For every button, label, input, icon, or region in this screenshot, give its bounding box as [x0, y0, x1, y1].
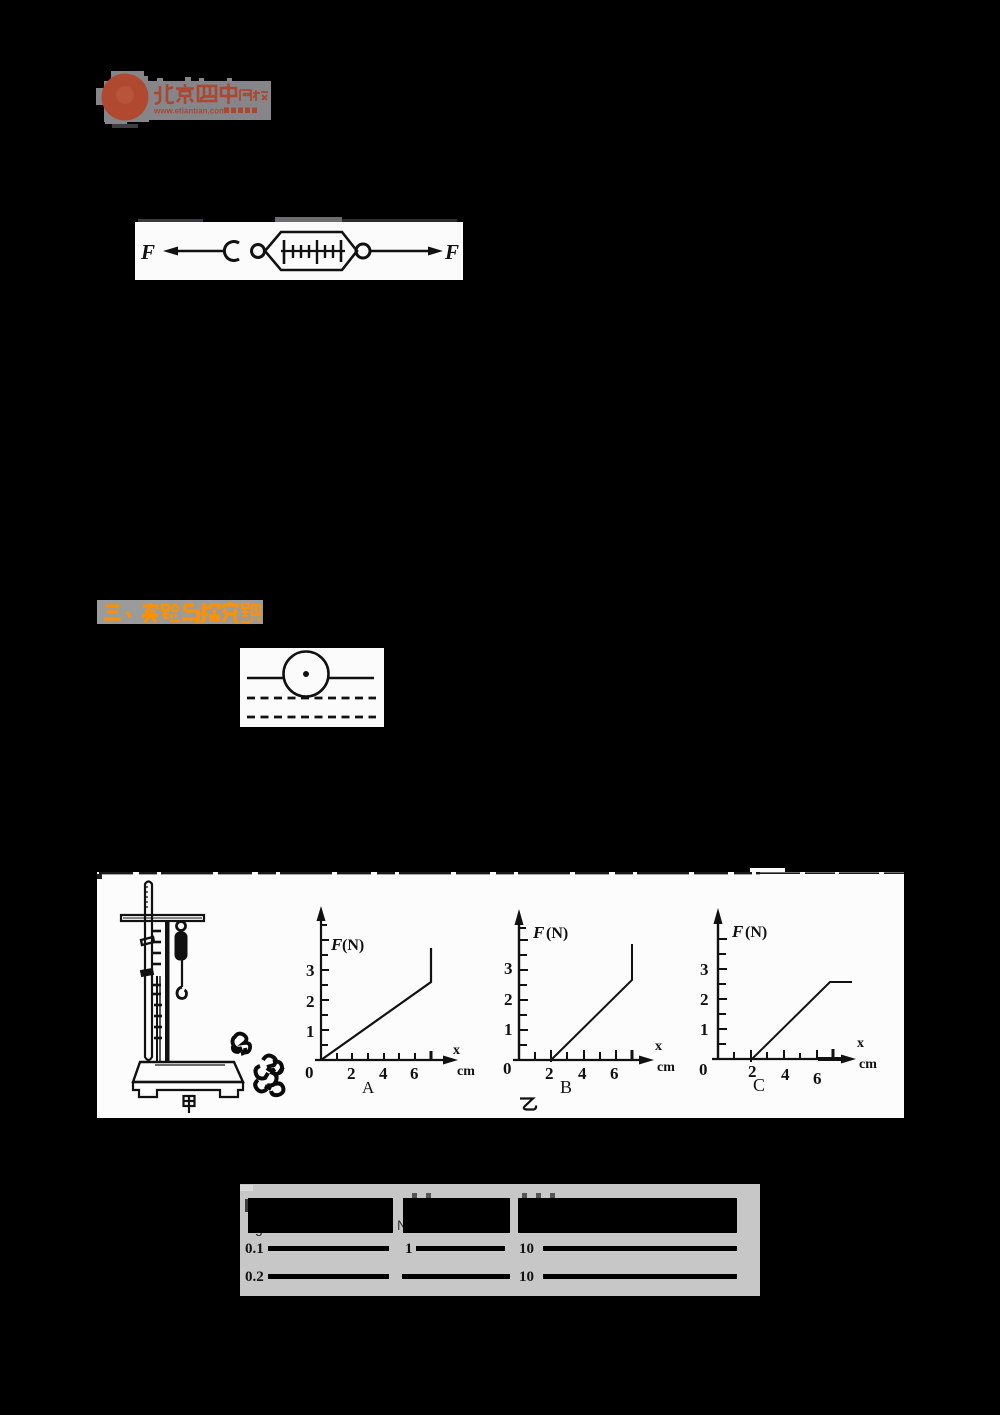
svg-text:(N): (N): [546, 925, 568, 942]
axes: [320, 918, 322, 1060]
svg-text:x: x: [655, 1039, 662, 1054]
long tick left: [283, 240, 286, 264]
svg-text:cm: cm: [859, 1057, 877, 1072]
logo block: [90, 62, 290, 132]
svg-text:(N): (N): [745, 924, 767, 941]
究: [223, 602, 238, 622]
right line + arrow: [370, 250, 430, 252]
svg-text:F: F: [444, 240, 459, 264]
weight scribble big: [255, 1056, 283, 1096]
dashed line 1: [247, 697, 376, 700]
centre dot: [303, 671, 309, 677]
svg-text:3: 3: [504, 959, 513, 978]
faint header glyph fragments: [245, 1199, 252, 1212]
svg-text:cm: cm: [657, 1060, 675, 1075]
data table: [240, 1184, 760, 1296]
校: [253, 90, 268, 101]
ragged dark top border: [99, 872, 760, 874]
grey backdrop patches: [111, 71, 144, 81]
svg-text:F: F: [140, 240, 155, 264]
scale centre line: [281, 250, 345, 252]
right small ring: [356, 244, 370, 258]
dashed line 2: [247, 716, 376, 719]
svg-text:1: 1: [700, 1020, 709, 1039]
svg-text:2: 2: [347, 1064, 356, 1083]
svg-text:0: 0: [503, 1059, 512, 1078]
实: [142, 603, 158, 623]
base front face with feet: [133, 1082, 243, 1097]
svg-text:2: 2: [700, 990, 709, 1009]
北: [154, 84, 174, 104]
网: [240, 90, 251, 101]
svg-text:4: 4: [781, 1065, 790, 1084]
四: [198, 86, 216, 101]
svg-text:2: 2: [306, 992, 315, 1011]
ball on water figure: [240, 648, 384, 727]
floating ball: [284, 652, 329, 697]
base top face: [133, 1062, 243, 1082]
svg-text:6: 6: [813, 1069, 822, 1088]
京: [176, 84, 194, 104]
grey smudges above spring figure: [138, 219, 203, 224]
svg-text:1: 1: [306, 1022, 315, 1041]
ruler dotted left edge: [146, 886, 148, 910]
svg-text:(N): (N): [342, 937, 364, 954]
hexagonal spring-scale body: [265, 232, 357, 270]
乙 label (drawn): [520, 1099, 536, 1110]
spring hook: [177, 987, 187, 999]
svg-text:6: 6: [410, 1064, 419, 1083]
row 1: [245, 1241, 264, 1258]
ruler ticks: [153, 931, 162, 1038]
svg-text:2: 2: [504, 990, 513, 1009]
svg-text:3: 3: [306, 961, 315, 980]
light mark top-left: [240, 1185, 253, 1191]
spring top ring: [177, 922, 186, 931]
svg-text:B: B: [560, 1077, 572, 1097]
orange heading 三、实验与探究题: [97, 600, 263, 624]
inner thin rod: [156, 976, 158, 1062]
spring dynamometer figure: [135, 222, 463, 280]
中: [221, 84, 236, 105]
weight scribble small: [233, 1034, 251, 1054]
big experiment panel: [97, 872, 904, 1118]
dark smudge under logo: [112, 124, 138, 128]
svg-text:6: 6: [610, 1064, 619, 1083]
left hook (open c-shape): [224, 242, 239, 261]
left small ring: [252, 245, 265, 258]
探: [201, 603, 220, 622]
题: [241, 604, 260, 622]
white bump above top edge: [750, 868, 785, 872]
svg-text:C: C: [753, 1075, 765, 1095]
left arrow: [163, 247, 178, 256]
clamp upper: [141, 937, 154, 945]
x ticks: [337, 1051, 431, 1060]
spring body: [175, 932, 187, 960]
ruler rod: [145, 882, 152, 1061]
water surface line: [247, 677, 374, 679]
spring wire: [181, 960, 183, 987]
short ticks: [292, 245, 294, 258]
crossbar: [121, 915, 204, 921]
svg-text:2: 2: [545, 1064, 554, 1083]
svg-text:3: 3: [700, 960, 709, 979]
svg-text:x: x: [453, 1043, 460, 1058]
svg-text:www.etiantian.com: www.etiantian.com: [153, 107, 226, 116]
row 2: [245, 1269, 264, 1286]
、: [127, 612, 130, 618]
svg-text:A: A: [362, 1078, 375, 1097]
svg-text:cm: cm: [457, 1064, 475, 1079]
与: [182, 605, 198, 622]
三: [106, 604, 119, 607]
svg-text:0: 0: [699, 1060, 708, 1079]
smaller 网校: [240, 90, 268, 101]
long tick right: [340, 240, 343, 262]
svg-text:4: 4: [379, 1064, 388, 1083]
svg-text:4: 4: [578, 1064, 587, 1083]
svg-text:0: 0: [305, 1063, 314, 1082]
clamp lower: [141, 969, 153, 976]
header black blocks: [248, 1198, 393, 1233]
y ticks: [321, 925, 329, 1045]
svg-text:F: F: [532, 923, 545, 942]
svg-text:F: F: [731, 922, 744, 941]
验: [162, 604, 180, 621]
svg-text:x: x: [857, 1036, 864, 1051]
red school name 北京四中 (drawn strokes): [154, 84, 236, 105]
甲 label (drawn): [184, 1096, 195, 1113]
svg-text:1: 1: [504, 1020, 513, 1039]
main rod: [165, 921, 170, 1062]
red emblem circle: [102, 74, 149, 121]
curve: [321, 948, 431, 1060]
